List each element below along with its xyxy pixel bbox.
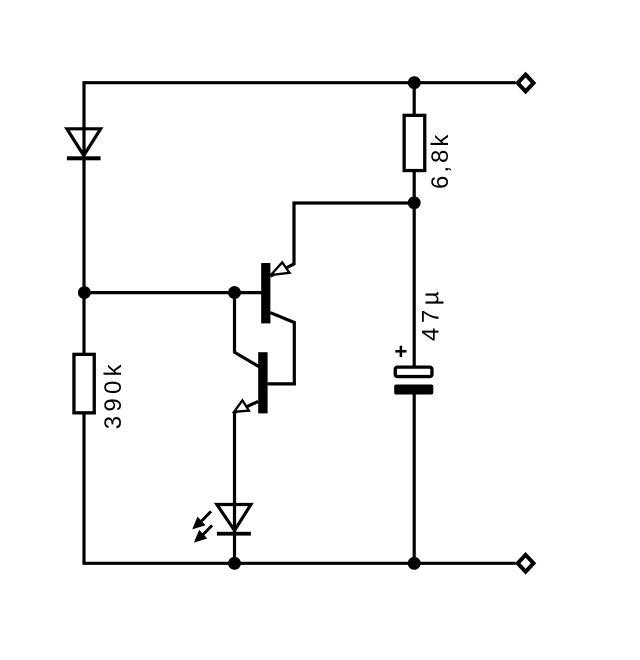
svg-text:47µ: 47µ xyxy=(418,287,445,341)
svg-text:390k: 390k xyxy=(100,360,127,429)
svg-text:6,8k: 6,8k xyxy=(427,132,454,189)
